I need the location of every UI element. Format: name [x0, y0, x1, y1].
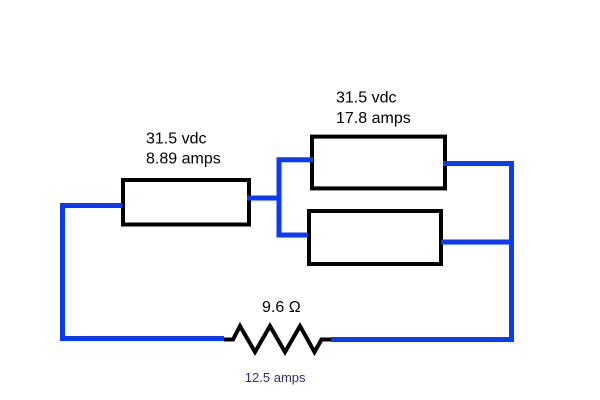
wire: left loop (source left side and bottom)	[63, 206, 225, 339]
resistor R3 (bottom parallel box)	[309, 211, 441, 264]
wire: R3 output to right rail (node B)	[441, 240, 513, 245]
svg-text:31.5 vdc: 31.5 vdc	[146, 131, 206, 148]
svg-text:31.5 vdc: 31.5 vdc	[336, 90, 396, 107]
wire: R2 output to right rail and bottom return	[331, 164, 512, 340]
svg-text:12.5 amps: 12.5 amps	[245, 370, 306, 385]
resistor R1 (left series box)	[123, 180, 249, 225]
svg-text:9.6 Ω: 9.6 Ω	[262, 299, 301, 316]
resistor R4 zigzag 9.6 ohm	[224, 326, 331, 352]
resistor R2 (top parallel box)	[312, 137, 445, 189]
wire: R1 output to junction node A	[247, 196, 279, 201]
wire: junction node A splitting to R2 and R3 inputs	[279, 160, 314, 235]
svg-text:17.8 amps: 17.8 amps	[336, 110, 411, 127]
svg-text:8.89 amps: 8.89 amps	[146, 151, 221, 168]
